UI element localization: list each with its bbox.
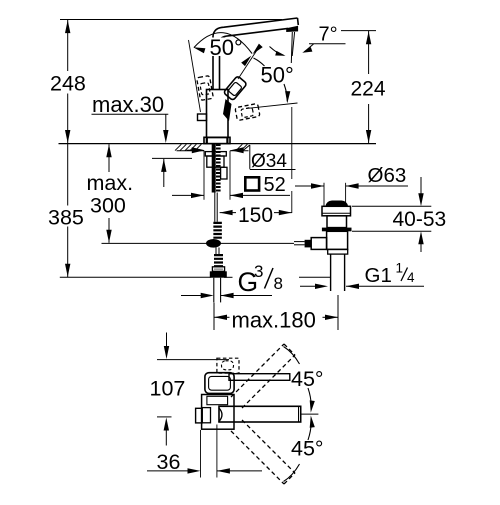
svg-text:45°: 45° (291, 437, 324, 461)
svg-text:150: 150 (238, 204, 273, 227)
svg-text:max.: max. (87, 171, 134, 195)
svg-text:3: 3 (254, 262, 263, 281)
svg-text:40-53: 40-53 (393, 208, 447, 231)
svg-text:50°: 50° (261, 63, 294, 88)
svg-text:107: 107 (150, 377, 186, 401)
svg-text:248: 248 (50, 72, 86, 96)
svg-text:45°: 45° (291, 367, 324, 391)
svg-text:max.30: max.30 (92, 92, 164, 117)
svg-text:52: 52 (264, 174, 286, 196)
svg-text:max.180: max.180 (232, 308, 316, 333)
svg-text:4: 4 (407, 270, 415, 285)
svg-text:385: 385 (48, 205, 84, 229)
svg-text:1: 1 (396, 261, 404, 276)
svg-text:224: 224 (351, 78, 386, 101)
svg-text:300: 300 (90, 194, 126, 218)
svg-text:Ø63: Ø63 (368, 164, 407, 187)
svg-text:8: 8 (274, 274, 283, 293)
svg-text:G1: G1 (365, 264, 392, 287)
svg-text:7°: 7° (319, 24, 338, 46)
